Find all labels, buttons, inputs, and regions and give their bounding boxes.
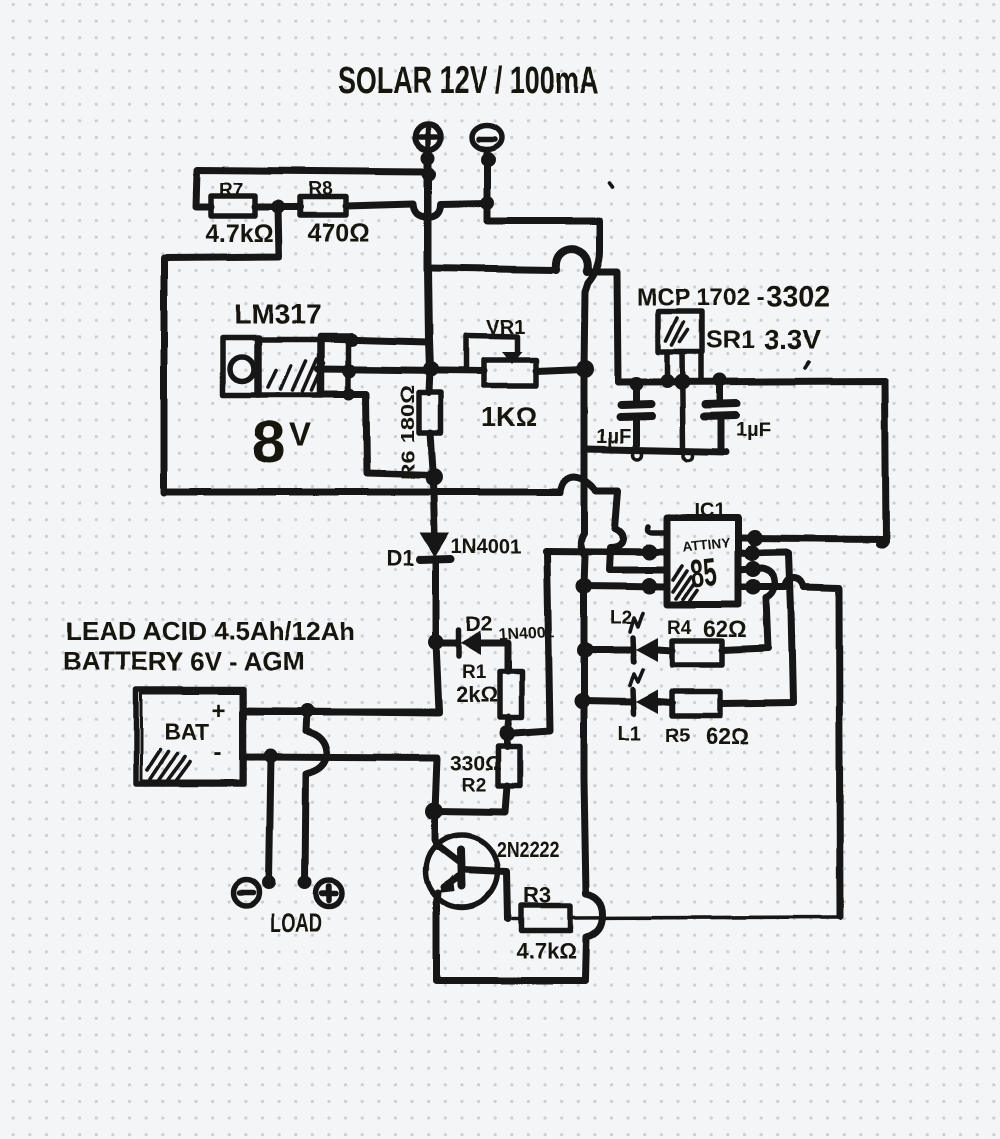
junction of trunk with top loop wire [422,167,436,181]
svg-text:1µF: 1µF [596,426,631,448]
wire battery plus lead [244,711,439,713]
junction SR1 input leg on bus [660,374,674,388]
resistor R2 330 ohm [434,733,520,812]
svg-text:3.3V: 3.3V [764,324,822,355]
svg-text:R2: R2 [462,775,486,796]
wire D1 cathode down to battery plus [244,562,439,712]
junction below minus terminal [481,152,496,167]
wire minus rail to LED L1 [582,701,633,702]
wire minus rail down through LED column [581,369,586,894]
svg-text:R3: R3 [523,883,551,908]
wire hop over ATtiny pin1 wire then feed to ATtiny pin2 [609,528,666,570]
pin blob ATtiny pin 8 [747,530,763,546]
svg-text:R5: R5 [665,726,690,747]
svg-text:LM317: LM317 [234,299,321,330]
diode D2 1N4001 [436,613,555,671]
junction VR1 wire on minus rail [576,360,594,378]
solar minus terminal [472,125,502,149]
svg-text:-: - [214,739,222,766]
pin blob LM317 VIN [344,333,358,347]
junction C2 tap on bus [713,373,727,387]
IC U2 ATtiny85 [667,518,738,605]
solar plus terminal [415,124,441,150]
wire solar plus trunk down to LM317 input [428,150,430,369]
pen tick mark [610,182,613,186]
junction load minus tap [264,749,278,763]
svg-text:3302: 3302 [766,281,831,313]
junction node between R7 and R8 [271,200,285,214]
svg-text:R8: R8 [308,179,332,200]
wire load plus down with hop over minus lead [305,711,327,881]
wire from R7/R8 junction down-left to LM317 ground rail [164,207,279,493]
junction L1 wire on minus rail [574,693,590,709]
pin blob ATtiny pin 6 [745,561,761,577]
pin stub ATtiny left pin 1 [648,527,668,533]
svg-text:4.7kΩ: 4.7kΩ [205,220,274,248]
pin SR1 output leg [698,352,704,381]
resistor R6 180 ohm vertical [398,369,443,533]
wire hop of minus rail around R3 wire [585,894,603,979]
svg-text:470Ω: 470Ω [308,219,370,247]
junction on pin1 wire [641,544,657,560]
wire ATtiny right pin 6 hop down to R4 [722,568,775,650]
wire R3 to ATtiny pin5 drop [570,917,839,918]
svg-text:D2: D2 [466,613,493,636]
battery BAT box [136,689,244,784]
resistor R5 62 ohm [665,692,749,749]
wire battery minus lead right and down to collector node [244,757,438,847]
wire R7 to R8 [255,204,300,211]
svg-text:R1: R1 [462,662,487,683]
wire minus net right and down with jog to vertical rail [487,203,600,369]
pin blob LM317 ADJ [342,364,356,378]
wire R1 bottom node up to ATtiny pin1 level [507,551,550,733]
wire ATtiny pin1 left wire [546,551,666,552]
wire top loop from trunk to R7 left lead [196,170,428,207]
svg-text:330Ω: 330Ω [450,752,502,775]
junction SR1 ground leg crossing bus [674,374,690,390]
wire branch from trunk toward MCP1702 input [429,268,556,270]
wire LM317 VOUT pin down and right to R6 bottom node [320,394,433,475]
svg-text:SR1: SR1 [706,326,755,354]
pen loop on ground bus [633,451,642,460]
pin blob ATtiny pin 7 [744,545,760,561]
wire minus rail to LED L2 [584,647,633,654]
wire ATtiny right pin 8 to 3.3V drop [738,538,886,539]
regulator SR1 MCP1702 package [658,311,702,352]
wire 3.3V bus right and down to ATtiny pin [618,381,886,545]
wire ATtiny right pin 7 down to R5 [722,552,793,704]
wire ATtiny left pin 4 from minus rail [581,586,667,587]
svg-text:D1: D1 [386,546,414,571]
wire from hop to corner and down to 3.3V bus [587,272,618,382]
terminal end load minus [262,876,276,890]
svg-text:62Ω: 62Ω [703,616,747,642]
transistor Q1 2N2222 [426,835,559,919]
pin blob LM317 VOUT [343,388,355,400]
load minus terminal circle [233,880,259,906]
wire ATtiny right pin 5 hop right then down to R3 [738,578,840,916]
capacitor C1 1uF [596,384,652,450]
wire from minus terminal down [484,150,491,203]
svg-text:V: V [289,416,311,453]
svg-text:8: 8 [252,409,285,476]
title label SOLAR 12V / 100mA [338,60,598,102]
junction ADJ wire with R6 top [423,361,439,377]
resistor R7 [205,180,274,248]
wire LM317 ADJ pin to potentiometer [318,369,484,371]
svg-text:R4: R4 [667,618,692,639]
junction D2 branch node [428,634,444,650]
wire hop of bottom rail over minus rail [560,477,618,528]
svg-text:4.7kΩ: 4.7kΩ [516,939,576,964]
resistor R4 62 ohm [667,616,747,665]
junction R2 bottom on collector wire [425,802,443,820]
LED L2 [610,608,672,662]
wire load minus down [269,756,271,881]
capacitor C2 1uF [704,380,771,450]
pen tick mark [805,362,809,368]
svg-text:LEAD ACID 4.5Ah/12Ah: LEAD ACID 4.5Ah/12Ah [66,616,355,646]
LED L1 [618,670,672,745]
junction below plus terminal [421,151,435,165]
svg-text:2N2222: 2N2222 [497,837,559,862]
terminal end load plus [298,876,312,890]
svg-text:LOAD: LOAD [270,908,322,938]
pin SR1 input leg [664,352,670,381]
potentiometer VR1 1K [466,317,537,432]
wire LM317 VIN pin to trunk [322,339,428,342]
svg-text:+: + [212,698,226,725]
svg-text:BAT: BAT [164,719,210,745]
pen loop on ground bus [684,452,693,461]
svg-text:R7: R7 [219,180,243,201]
wire LM317 bottom rail [164,489,560,496]
junction load plus tap [300,704,314,718]
svg-text:62Ω: 62Ω [705,723,749,749]
junction blob on pin4 wire [641,578,657,594]
svg-text:MCP 1702 -: MCP 1702 - [637,284,765,311]
pin blob ATtiny pin 5 [745,579,761,595]
wire hop arc over minus rail [556,249,588,272]
resistor R3 4.7k [513,883,576,964]
resistor R8 [300,179,370,247]
junction C1 tap on bus [629,377,643,391]
wire emitter bottom rail [436,903,585,981]
svg-text:2kΩ: 2kΩ [456,682,498,707]
junction pin4 wire on minus rail [576,578,592,594]
svg-text:85: 85 [688,550,718,596]
regulator U1 LM317 package [223,336,348,395]
svg-text:L1: L1 [618,723,641,745]
svg-text:SOLAR 12V / 100mA: SOLAR 12V / 100mA [338,60,598,102]
resistor R1 2k [456,662,522,733]
diode D1 1N4001 [386,533,521,571]
svg-text:1N4001: 1N4001 [451,536,521,558]
svg-text:1KΩ: 1KΩ [481,402,537,432]
junction L2 wire on minus rail [577,642,593,658]
junction R1/R2 node [499,725,515,741]
wire capacitor ground bus [584,449,726,452]
svg-text:R6 180Ω: R6 180Ω [398,385,418,480]
svg-text:L2: L2 [610,608,632,629]
pin SR1 ground leg to lower bus [682,352,683,449]
wire VR1 right lead to minus rail [536,369,584,371]
junction minus node [480,196,494,210]
svg-text:BATTERY 6V - AGM: BATTERY 6V - AGM [63,646,304,676]
svg-text:1µF: 1µF [736,419,771,441]
wire R8 right lead with hop under trunk to minus node [346,203,487,217]
load plus terminal circle [316,881,342,907]
